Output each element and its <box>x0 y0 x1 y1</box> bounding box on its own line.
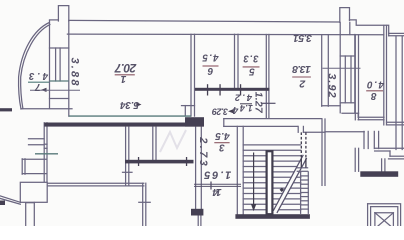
svg-text:3.29: 3.29 <box>212 106 228 116</box>
svg-text:13.8: 13.8 <box>292 63 311 75</box>
svg-text:6: 6 <box>207 65 213 76</box>
svg-text:4.2: 4.2 <box>234 92 253 103</box>
svg-text:1.27: 1.27 <box>253 92 265 114</box>
svg-text:3.51: 3.51 <box>293 32 312 44</box>
svg-text:14: 14 <box>212 186 221 198</box>
svg-text:1.4: 1.4 <box>240 103 253 113</box>
svg-text:3.3: 3.3 <box>243 53 259 64</box>
svg-text:4.3: 4.3 <box>28 70 49 81</box>
svg-text:7: 7 <box>34 81 40 92</box>
svg-text:2: 2 <box>299 78 306 90</box>
svg-text:8: 8 <box>370 90 376 101</box>
svg-text:3.92: 3.92 <box>325 73 337 97</box>
svg-text:2.73: 2.73 <box>197 136 209 166</box>
svg-text:5.34: 5.34 <box>120 99 139 110</box>
svg-text:1.65: 1.65 <box>203 168 231 180</box>
svg-text:4.5: 4.5 <box>215 130 231 141</box>
svg-text:4.0: 4.0 <box>367 78 385 89</box>
svg-text:4: 4 <box>232 104 239 115</box>
svg-text:3.88: 3.88 <box>68 58 80 87</box>
svg-text:4.5: 4.5 <box>202 52 220 63</box>
svg-text:20.7: 20.7 <box>113 61 137 75</box>
